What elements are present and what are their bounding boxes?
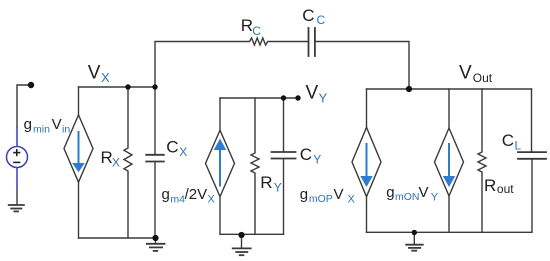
svg-text:C: C bbox=[302, 6, 314, 25]
svg-text:mON: mON bbox=[395, 191, 420, 203]
svg-text:V: V bbox=[52, 116, 62, 133]
svg-text:V: V bbox=[459, 63, 472, 84]
svg-text:m4: m4 bbox=[170, 193, 185, 205]
svg-text:R: R bbox=[484, 176, 496, 195]
svg-text:V: V bbox=[419, 184, 429, 201]
svg-text:C: C bbox=[252, 24, 261, 38]
svg-text:X: X bbox=[112, 156, 120, 170]
svg-text:g: g bbox=[300, 186, 308, 203]
svg-text:C: C bbox=[166, 137, 178, 156]
svg-text:C: C bbox=[502, 131, 514, 150]
svg-text:in: in bbox=[62, 123, 70, 135]
svg-text:g: g bbox=[386, 184, 394, 201]
svg-text:X: X bbox=[101, 70, 110, 85]
svg-text:g: g bbox=[162, 186, 170, 203]
svg-text:Y: Y bbox=[313, 152, 321, 166]
svg-text:Out: Out bbox=[473, 71, 493, 85]
svg-text:X: X bbox=[208, 194, 216, 206]
svg-text:L: L bbox=[515, 139, 522, 153]
svg-text:C: C bbox=[317, 13, 326, 27]
svg-text:V: V bbox=[334, 186, 344, 203]
svg-text:g: g bbox=[24, 116, 32, 133]
svg-text:out: out bbox=[497, 182, 514, 196]
svg-text:min: min bbox=[33, 123, 50, 135]
svg-text:Y: Y bbox=[274, 181, 282, 195]
svg-text:R: R bbox=[260, 173, 272, 192]
svg-text:Y: Y bbox=[431, 191, 439, 203]
svg-text:mOP: mOP bbox=[309, 193, 333, 205]
svg-text:X: X bbox=[348, 193, 356, 205]
svg-text:V: V bbox=[88, 63, 101, 84]
svg-text:/2V: /2V bbox=[185, 186, 208, 203]
svg-text:C: C bbox=[300, 145, 312, 164]
svg-text:Y: Y bbox=[319, 90, 328, 105]
svg-text:X: X bbox=[179, 145, 187, 159]
svg-text:V: V bbox=[306, 83, 319, 104]
